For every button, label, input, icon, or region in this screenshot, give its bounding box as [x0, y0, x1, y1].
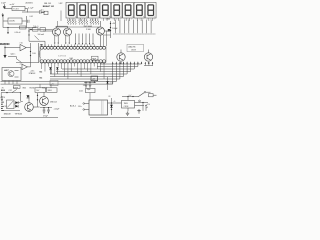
ground symbol G2	[2, 13, 4, 17]
capacitor C5 100uF	[108, 28, 119, 32]
label ICM7216	[58, 56, 67, 58]
svg-text:B306: B306	[48, 90, 52, 92]
capacitor C2 0.1uF	[28, 8, 34, 10]
resistor marks in U5	[4, 71, 19, 78]
svg-text:+5v: +5v	[51, 83, 54, 85]
wire Q4 collector up	[99, 21, 101, 46]
label 100 mA	[38, 33, 45, 36]
svg-text:1.SP: 1.SP	[59, 3, 64, 5]
svg-text:dxd.5: dxd.5	[79, 90, 83, 92]
svg-text:ICM7216: ICM7216	[58, 56, 67, 58]
regulator U7 uA7805	[91, 76, 98, 81]
ground symbol G5	[137, 109, 140, 113]
resistor R13	[20, 26, 27, 29]
svg-text:2N2 906Ω: 2N2 906Ω	[84, 26, 93, 28]
7-segment display DS5	[111, 2, 122, 21]
resistor R15	[14, 85, 21, 88]
diode D3	[106, 81, 113, 84]
7-segment display DS6	[123, 2, 134, 21]
wire sec top	[108, 102, 122, 104]
op-amp U4	[20, 44, 26, 50]
svg-text:+100μF: +100μF	[54, 109, 60, 111]
oscillator module X1 TCXO	[12, 6, 25, 10]
wire y29 to Q2	[29, 28, 53, 30]
wire opamp in	[5, 47, 20, 49]
svg-text:AC8081: AC8081	[26, 2, 34, 5]
wire Q2 emitter arrows	[54, 35, 59, 44]
AC input wires	[78, 103, 89, 111]
diode D6	[15, 105, 18, 108]
node dot n2	[4, 46, 5, 53]
wire left col	[21, 93, 23, 102]
7-segment display DS1	[66, 2, 77, 21]
svg-text:0.01: 0.01	[30, 16, 34, 18]
label NC pins	[40, 71, 43, 79]
capacitor C7 0.1	[87, 82, 92, 91]
wire x30 vertical	[30, 43, 31, 63]
digit cathode lines to drivers	[113, 20, 156, 34]
svg-text:OSC: OSC	[5, 44, 10, 46]
node dot n1	[7, 27, 9, 34]
wire y12	[22, 11, 36, 13]
capacitor C8 470uF	[143, 103, 150, 111]
connector bracket J1	[39, 50, 41, 58]
svg-text:0.30 nF: 0.30 nF	[15, 32, 22, 34]
wire u2 right	[22, 16, 27, 28]
label ACS-1	[70, 105, 77, 108]
label tight s	[11, 53, 16, 56]
svg-text:TIP3055: TIP3055	[15, 113, 23, 115]
wire digit1 pin down	[57, 21, 59, 27]
svg-text:B8TB: B8TB	[92, 58, 96, 60]
label +5v n4	[20, 64, 23, 66]
label above U3	[33, 26, 38, 28]
svg-text:BU8: BU8	[1, 90, 5, 92]
transistor Q6 driver	[144, 53, 152, 64]
gate module U3a	[33, 28, 39, 31]
svg-text:C8: C8	[108, 96, 110, 98]
label BB	[40, 45, 43, 47]
gate module U3b	[40, 28, 46, 31]
capacitor C6 10uF	[83, 82, 88, 88]
svg-text:22A1786: 22A1786	[128, 45, 135, 48]
7-segment display DS4	[100, 2, 111, 21]
capacitor C10 470uF	[47, 108, 50, 114]
wire Q5 top	[120, 50, 122, 53]
svg-text:100μF: 100μF	[112, 28, 118, 30]
label +13.6V STBY	[29, 70, 36, 75]
svg-text:100kHz: 100kHz	[9, 21, 15, 23]
diode D1	[49, 67, 51, 74]
svg-text:C8O8: C8O8	[131, 49, 136, 51]
bus digit-driver wiring	[1, 62, 143, 85]
wire bus y27	[3, 27, 36, 29]
svg-text:1N4148: 1N4148	[4, 113, 12, 115]
capacitor C3	[36, 10, 45, 14]
wire x107 vertical	[107, 77, 109, 90]
wires U5 bottom stubs	[5, 81, 17, 85]
segment resistors R1-R12	[67, 19, 99, 25]
svg-text:14V: 14V	[36, 90, 40, 92]
transformer T1	[89, 100, 108, 115]
transistor Q2 2N2907	[53, 28, 61, 36]
label BU8	[1, 90, 12, 92]
svg-text:R05W: R05W	[30, 88, 35, 90]
switch S3	[35, 36, 40, 41]
svg-text:+100: +100	[109, 83, 113, 85]
capacitor C4 0.01	[28, 16, 33, 23]
+5V arrow A1	[10, 4, 15, 6]
ground symbol G1	[3, 4, 6, 9]
svg-text:+5: +5	[114, 101, 116, 103]
wire osc left	[5, 7, 12, 9]
label HDSP-5082 displays	[43, 3, 63, 8]
node dots right	[139, 100, 147, 106]
svg-text:+10: +10	[83, 85, 86, 87]
7-segment display DS3	[89, 2, 100, 21]
svg-text:120v: 120v	[78, 106, 82, 108]
label 470uF	[43, 115, 48, 117]
wire Q2 top stub	[57, 26, 68, 28]
ground symbol G3	[3, 53, 6, 58]
svg-text:9V: 9V	[5, 106, 8, 108]
svg-text:2N1514: 2N1514	[50, 102, 57, 104]
7-segment display DS7	[134, 2, 145, 21]
svg-text:Cu7: Cu7	[129, 95, 132, 97]
wire y62	[16, 62, 39, 64]
label MAX	[70, 57, 74, 60]
transistor Q5 driver	[117, 53, 125, 64]
wire Q6 top	[148, 50, 150, 53]
label Cu7	[129, 95, 132, 97]
wires U9 top stubs	[40, 84, 51, 88]
svg-text:C12: C12	[9, 90, 12, 92]
component box C11	[41, 11, 48, 14]
svg-text:W05: W05	[23, 88, 27, 90]
wire Q4 out right	[104, 30, 110, 32]
wire Q3 emitter arrows	[65, 35, 70, 44]
svg-text:C8O8: C8O8	[124, 106, 129, 108]
wires IC top pin stubs	[42, 44, 94, 46]
+5V display supply	[40, 10, 44, 12]
svg-text:MAX: MAX	[70, 57, 74, 60]
wire reg out1	[135, 102, 149, 104]
label 1N4148 TIP3055	[4, 113, 23, 115]
wire box-diode	[14, 103, 21, 104]
wires right drops	[103, 31, 110, 46]
IC U1 ICM7216 body with pins	[40, 46, 106, 63]
7-segment display DS8	[145, 2, 156, 21]
module box U9b	[47, 88, 58, 93]
driver array U6 22A1786	[127, 44, 144, 51]
wire bend to opamp2	[8, 57, 22, 63]
label U5 type	[5, 69, 9, 71]
wire x29 down	[28, 28, 29, 36]
node dot n3	[30, 29, 32, 31]
label 9V	[5, 106, 8, 108]
labels bus row	[2, 80, 59, 89]
wire x29 lower	[28, 35, 30, 41]
wire x110 vertical	[110, 21, 111, 38]
wire u2 left	[3, 17, 8, 28]
wire opamp out	[26, 47, 30, 49]
svg-text:100 mA: 100 mA	[38, 33, 45, 36]
svg-text:10Ω: 10Ω	[32, 53, 36, 55]
wire reg top feed	[122, 96, 138, 101]
transistor Q7 TIP3055	[25, 95, 34, 111]
svg-text:1.5pF: 1.5pF	[1, 2, 7, 4]
switch S1	[138, 91, 151, 97]
diode D5	[15, 101, 18, 104]
svg-text:33μF: 33μF	[87, 89, 91, 91]
svg-text:0.1 μF: 0.1 μF	[28, 8, 34, 10]
label +5 out	[114, 101, 116, 103]
wire Q7 Q8 link	[33, 93, 39, 107]
7-segment display DS2	[77, 2, 88, 21]
svg-text:tight s: tight s	[11, 53, 16, 56]
label AC8081	[26, 2, 34, 5]
transistor Q3 2N2907	[64, 28, 72, 36]
svg-text:2 906: 2 906	[86, 29, 91, 31]
svg-text:7805: 7805	[124, 103, 128, 105]
svg-text:MB. 101: MB. 101	[44, 3, 51, 5]
svg-text:μF: μF	[146, 107, 148, 109]
wires IC bottom pin drops	[42, 63, 104, 79]
diode D2	[56, 67, 58, 74]
svg-text:TCXO: TCXO	[13, 9, 19, 11]
label C8	[108, 96, 110, 98]
wire reg ground	[84, 81, 96, 83]
svg-text:NC: NC	[40, 71, 43, 73]
wires driver arrows extra	[144, 62, 153, 66]
capacitor C9 100uF	[43, 108, 46, 114]
wire U9a down	[43, 92, 45, 96]
wire under Q8	[40, 107, 52, 108]
wire x38 vertical	[38, 43, 40, 63]
ground symbol G4	[126, 112, 129, 116]
label +100uF	[54, 109, 60, 111]
capacitor C1 1.5pF label	[1, 2, 7, 4]
wire Q2 base	[43, 30, 53, 32]
wire bottom rail	[90, 117, 140, 119]
wire collector rail y27	[55, 26, 100, 28]
label +5V n3	[112, 23, 116, 25]
wire x128 cap	[127, 108, 129, 111]
transistor Q4 2N906	[96, 27, 104, 35]
svg-text:ACS-1: ACS-1	[70, 105, 77, 108]
svg-text:BBS&P 101: BBS&P 101	[43, 6, 55, 8]
wire batt top	[0, 93, 2, 100]
label 7.10	[20, 43, 23, 45]
regulator U8 7805	[122, 100, 135, 108]
label +13.6	[1, 97, 5, 99]
module box U5 prescaler	[2, 68, 21, 81]
relay box K1	[7, 100, 15, 109]
op-amp U10	[22, 63, 31, 70]
label 2N2907	[84, 26, 93, 31]
resistor R14 101	[32, 53, 36, 55]
module box U9a	[35, 88, 46, 93]
wire reg out2	[135, 105, 145, 107]
svg-text:1300: 1300	[106, 18, 110, 20]
wire y110	[2, 110, 20, 112]
wire first digit left	[60, 11, 62, 22]
transistor Q1 in U5	[8, 71, 14, 77]
wires segment drive drops	[75, 34, 94, 45]
rectifier D4 stack	[110, 98, 113, 115]
wire left feed	[1, 92, 21, 93]
transistor Q8 2N2147	[40, 97, 49, 106]
label 5 MHz OSC	[0, 44, 10, 46]
wire U11 down	[89, 93, 91, 100]
label 2N2147	[50, 102, 57, 104]
label 1300	[106, 18, 110, 20]
svg-text:+5 v: +5 v	[40, 10, 44, 12]
svg-text:+4.70: +4.70	[146, 104, 150, 106]
fuse F1	[149, 94, 157, 97]
svg-text:+5V: +5V	[11, 4, 15, 6]
svg-text:8TA50F: 8TA50F	[29, 72, 36, 75]
svg-text:7.10: 7.10	[20, 43, 23, 45]
module box U11	[79, 88, 95, 92]
label B8TB	[92, 56, 99, 60]
battery B1 9V	[0, 97, 4, 111]
svg-text:+13C: +13C	[30, 70, 35, 72]
svg-text:NC: NC	[40, 78, 43, 80]
switch S2	[12, 89, 17, 92]
diode D7	[27, 95, 30, 98]
svg-text:470μF: 470μF	[43, 115, 48, 117]
divider module U2 100kHz	[8, 18, 22, 24]
svg-text:10116: 10116	[5, 69, 9, 71]
wire osc right	[25, 9, 28, 13]
capacitor value 0.30nF	[15, 32, 22, 34]
wire bottom left rail	[1, 117, 58, 119]
wire y41	[29, 41, 45, 46]
